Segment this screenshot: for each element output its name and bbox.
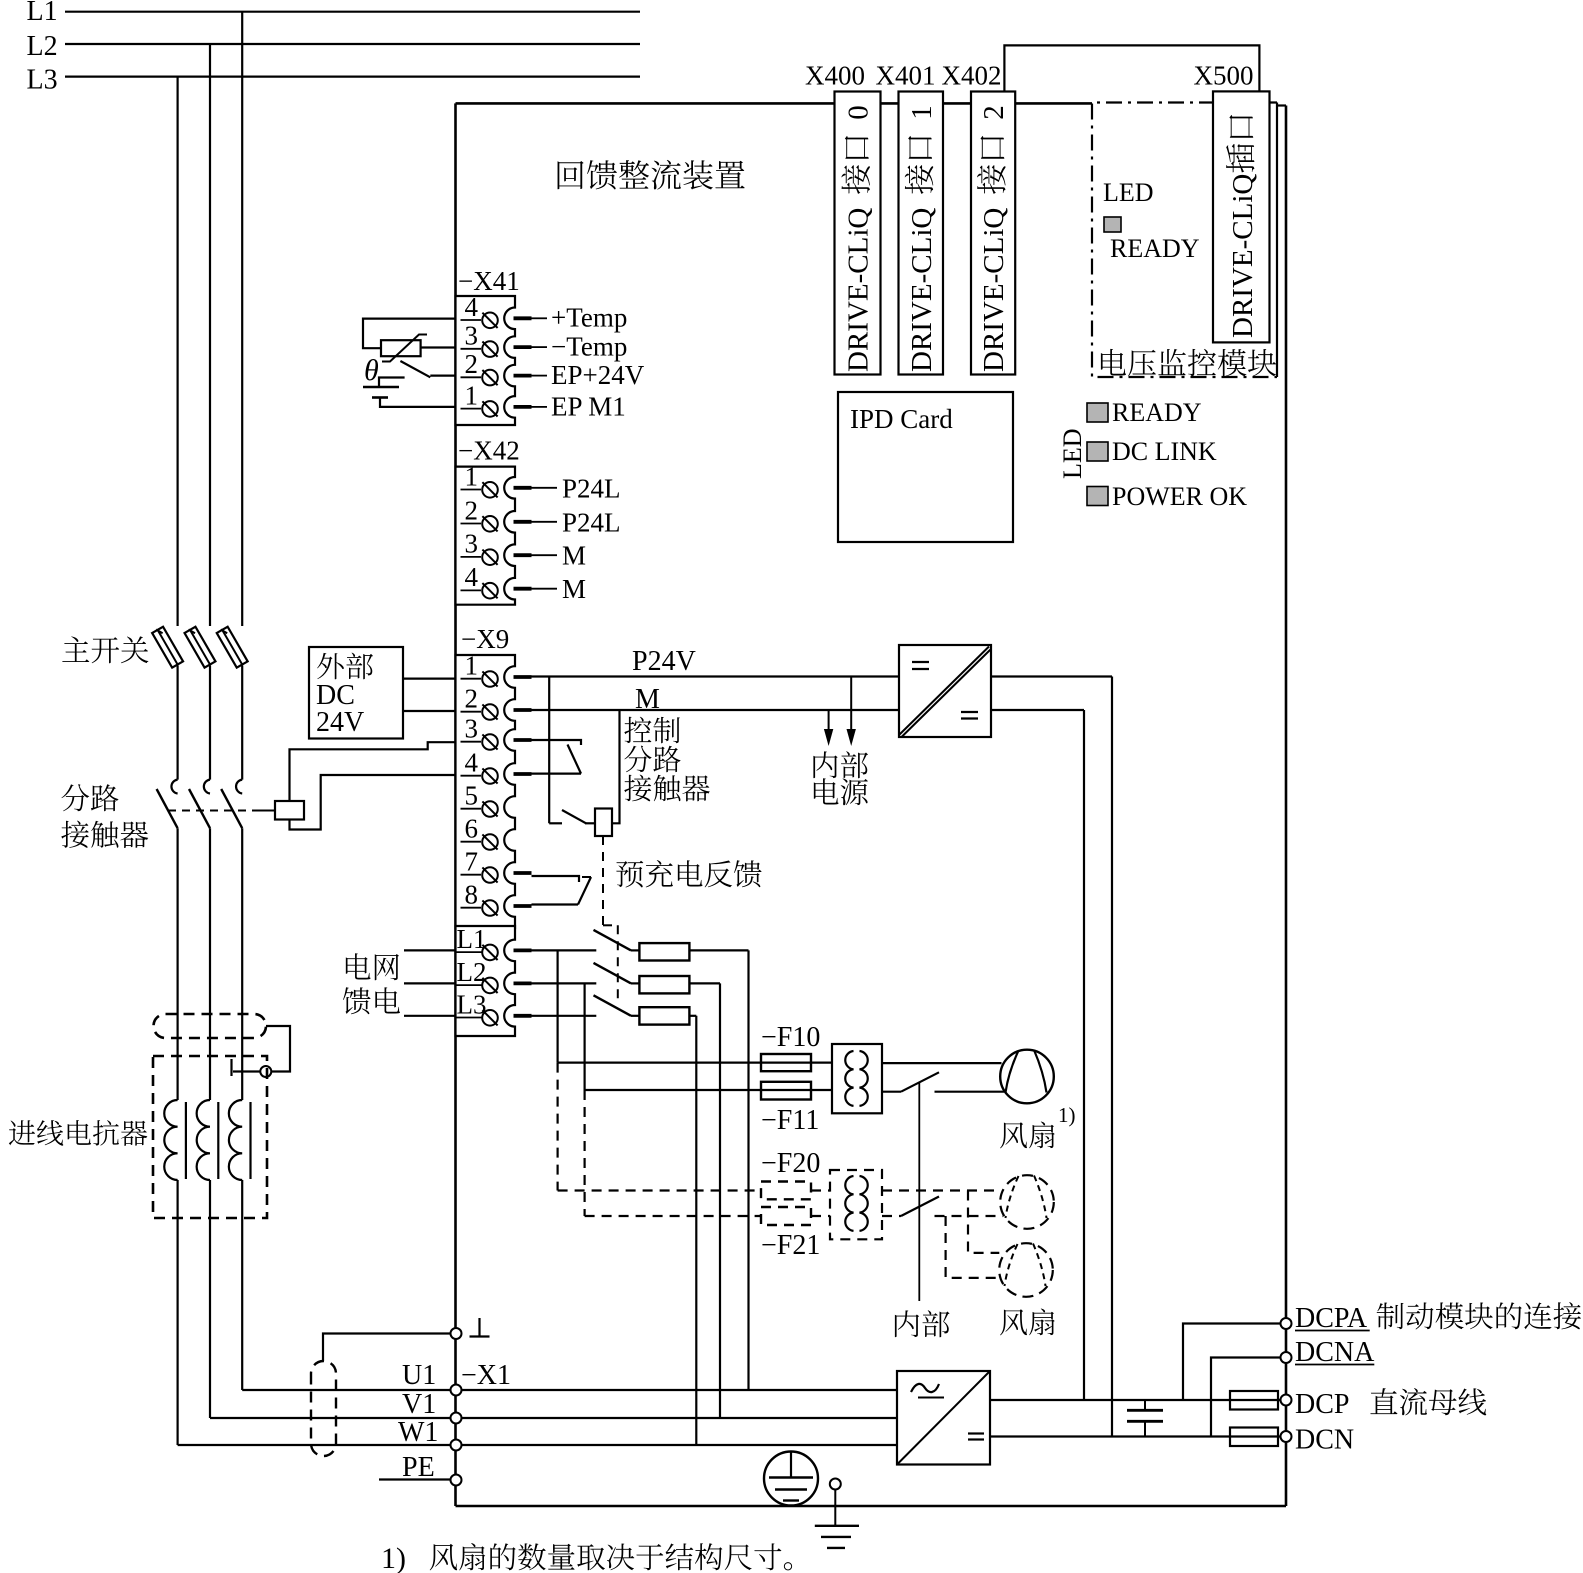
svg-text:1: 1	[465, 651, 479, 681]
wire fan 2 switch to fan 2 (dashed)	[935, 1215, 1004, 1217]
X9-3/4 contact blade	[568, 745, 582, 774]
svg-text:DCP: DCP	[1295, 1389, 1349, 1420]
wire T1 to fan 1 top	[882, 1062, 1002, 1064]
precharge feedback label 预充电反馈	[616, 861, 643, 888]
wire L3 drop mid	[177, 666, 179, 780]
wire P24V rail	[532, 675, 900, 677]
wire M rail drop to DCP	[1083, 710, 1085, 1400]
wire optional fan group feed 2 (dashed)	[583, 1090, 585, 1216]
wire U1 external	[242, 1389, 450, 1391]
svg-text:POWER OK: POWER OK	[1112, 482, 1247, 511]
bypass contact L2 lead	[532, 982, 597, 984]
svg-text:0: 0	[843, 105, 875, 119]
svg-text:EP M1: EP M1	[551, 392, 626, 422]
svg-text:6: 6	[465, 814, 479, 844]
wire L2 drop mid	[209, 666, 211, 780]
internal supply arrow 1	[828, 710, 830, 732]
terminal block X41	[456, 296, 516, 425]
svg-text:DRIVE-CLiQ: DRIVE-CLiQ	[843, 208, 875, 372]
line reactor winding L2	[197, 1100, 210, 1180]
precharge resistor L3	[639, 1007, 689, 1024]
svg-text:3: 3	[465, 714, 479, 744]
svg-text:2: 2	[465, 495, 479, 525]
wire L2 to fan fuse F11	[583, 983, 585, 1090]
svg-text:W1: W1	[398, 1417, 438, 1448]
terminal W1	[451, 1440, 462, 1451]
control contactor coil K1	[595, 809, 612, 837]
coil linkage to line contacts (dashed)	[602, 836, 604, 925]
protective earth circle symbol	[764, 1452, 818, 1506]
line reactor label 进线电抗器	[9, 1120, 35, 1145]
svg-text:7: 7	[465, 847, 479, 877]
temp switch left contact	[379, 378, 405, 388]
wire V1 internal	[462, 1417, 898, 1419]
X401 rotated label	[905, 105, 938, 372]
svg-text:−F20: −F20	[761, 1148, 820, 1179]
svg-text:−Temp: −Temp	[551, 332, 627, 362]
line reactor core L3	[185, 1102, 187, 1179]
external DC 24V box	[309, 647, 403, 739]
svg-text:L3: L3	[27, 65, 58, 96]
svg-text:L1: L1	[27, 0, 58, 27]
earth terminal circle	[830, 1479, 841, 1490]
svg-text:2: 2	[465, 684, 479, 714]
line reactor winding L1	[229, 1100, 242, 1180]
fuse F10	[761, 1054, 811, 1071]
DC/DC input = mark	[912, 661, 929, 663]
terminal U1	[451, 1385, 462, 1396]
wire X9-7 contact	[532, 876, 580, 882]
wire T1 to fan switch	[882, 1091, 901, 1093]
svg-text:EP+24V: EP+24V	[551, 360, 645, 390]
line contactor K1 pole 2 fixed contact	[204, 780, 210, 794]
wire grid feed L2	[404, 982, 456, 984]
precharge resistor L3 lead	[631, 1015, 639, 1017]
svg-text:DCNA: DCNA	[1295, 1337, 1375, 1368]
svg-text:1: 1	[465, 461, 479, 491]
wire DC24V to X9-1	[403, 677, 456, 679]
X400 DRIVE-CLiQ port box	[835, 92, 881, 375]
svg-text:LED: LED	[1058, 428, 1087, 479]
wire X9-3 contact	[532, 740, 582, 745]
cable shield sleeve (top, dashed stadium)	[154, 1014, 267, 1038]
fuse F20 (dashed)	[761, 1182, 811, 1200]
bypass contact L3 lead	[532, 1015, 597, 1017]
svg-text:DRIVE-CLiQ: DRIVE-CLiQ	[978, 208, 1010, 372]
line contactor K1 pole 3 blade	[221, 789, 242, 828]
internal power supply DC/DC converter	[899, 645, 991, 737]
LED square READY	[1087, 403, 1108, 422]
IPD Card box	[838, 392, 1013, 542]
wire L2 drop upper	[209, 44, 211, 626]
wire L2 drop lower	[209, 828, 211, 1100]
svg-text:24V: 24V	[316, 707, 364, 738]
svg-text:READY: READY	[1110, 234, 1200, 263]
wire V1 external	[210, 1417, 451, 1419]
DC/DC output = mark	[961, 711, 978, 713]
svg-text:−F10: −F10	[761, 1022, 820, 1053]
internal supply label 内部电源	[813, 751, 837, 778]
terminal block X42	[456, 467, 516, 605]
voltage monitoring module 电压监控模块 (dash-dot box)	[1092, 103, 1277, 378]
line reactor core L1	[249, 1102, 251, 1179]
wire DCP bus	[991, 1399, 1281, 1401]
thermistor strike (theta symbol mark)	[382, 335, 427, 362]
bypass contact L3 blade	[594, 995, 632, 1016]
fan 2 motor (dashed)	[1000, 1175, 1054, 1229]
svg-text:−X1: −X1	[461, 1360, 511, 1391]
terminal PE	[451, 1475, 462, 1486]
wire DCPA tap	[1183, 1324, 1281, 1401]
main switch Q1 pole 2	[185, 627, 216, 668]
wire U1 internal	[462, 1389, 898, 1391]
DC link capacitor	[1144, 1400, 1146, 1410]
earth terminal stem	[834, 1490, 836, 1526]
svg-text:3: 3	[465, 529, 479, 559]
svg-text:M: M	[562, 574, 586, 604]
temp switch blade	[400, 361, 430, 377]
svg-text:5: 5	[465, 781, 479, 811]
wire DC24V to X9-2	[403, 710, 456, 712]
wire coil top to X9-3	[290, 742, 456, 801]
wire L3 drop upper	[177, 77, 179, 626]
svg-text:DCPA: DCPA	[1295, 1303, 1368, 1334]
contactor control contact right lead	[585, 822, 595, 824]
X500 DRIVE-CLiQ socket box	[1213, 91, 1270, 342]
contactor control contact left lead	[549, 822, 562, 824]
mains terminal block L1 L2 L3	[456, 926, 516, 1036]
shield terminal circle	[451, 1328, 462, 1339]
wire resistor L3 out	[689, 1015, 696, 1017]
wire P24V rail drop to DCN	[1111, 677, 1113, 1437]
wire X9-8 contact	[532, 903, 579, 905]
VSM module label 电压监控模块	[1101, 349, 1126, 376]
svg-text:V1: V1	[402, 1389, 436, 1420]
svg-text:DC LINK: DC LINK	[1112, 437, 1217, 466]
shield terminal wire	[323, 1334, 451, 1362]
X401 DRIVE-CLiQ port box	[899, 92, 944, 375]
line reactor dashed enclosure	[153, 1056, 267, 1218]
main switch label 主开关	[62, 636, 89, 662]
wire W1 external	[178, 1444, 451, 1446]
svg-text:3: 3	[465, 321, 479, 351]
X500 connector outline	[1004, 45, 1259, 103]
precharge resistor L1 lead	[631, 949, 639, 951]
wire L2 drop bottom	[209, 1180, 211, 1418]
wire L1 feeder	[65, 11, 640, 13]
main unit title 回馈整流装置	[558, 161, 584, 189]
bypass contact L1 lead	[532, 949, 597, 951]
wire L1 drop bottom	[241, 1180, 243, 1390]
svg-text:1): 1)	[1058, 1103, 1076, 1127]
svg-text:P24L: P24L	[562, 507, 621, 537]
wire PE stub	[379, 1478, 451, 1480]
wire W1 internal	[462, 1444, 898, 1446]
wire L3 to rectifier input	[695, 1016, 697, 1445]
fan 2/3 label 风扇	[1000, 1309, 1027, 1335]
wire DCNA tap	[1211, 1358, 1281, 1437]
wire to fuse F11	[585, 1089, 761, 1091]
wire resistor L1 out	[689, 949, 748, 951]
svg-text:DCN: DCN	[1295, 1425, 1354, 1456]
line contactor label 分路接触器	[61, 784, 89, 811]
wire X41-2 temp switch	[430, 375, 455, 377]
internal fan control linkage	[918, 1082, 920, 1301]
fan switch blade	[901, 1072, 939, 1091]
wire X9-4 contact	[532, 772, 582, 774]
svg-text:PE: PE	[402, 1452, 435, 1483]
precharge resistor L2 lead	[631, 982, 639, 984]
svg-text:2: 2	[465, 349, 479, 379]
wire T2 to fan 2 switch (dashed)	[882, 1215, 901, 1217]
svg-text:4: 4	[465, 292, 479, 322]
svg-text:−X9: −X9	[461, 624, 509, 654]
wire L2 feeder	[65, 43, 640, 45]
terminal V1	[451, 1413, 462, 1424]
bypass contact L2 blade	[594, 963, 632, 984]
svg-text:2: 2	[978, 105, 1010, 119]
fan 1 label 风扇 1)	[1000, 1122, 1027, 1148]
contactor K1 linkage	[168, 810, 253, 812]
svg-text:1: 1	[465, 380, 479, 410]
precharge resistor L2	[639, 976, 689, 993]
fan 1 motor	[1000, 1050, 1054, 1104]
fan transformer T1 box	[832, 1044, 882, 1113]
rectifier DC mark	[968, 1432, 984, 1434]
wire to fuse F20 (dashed)	[558, 1189, 761, 1191]
wire X9-1 branch down	[548, 677, 550, 824]
svg-text:X500: X500	[1194, 61, 1254, 91]
thermistor body	[381, 340, 421, 356]
main rectifier AC/DC converter	[897, 1371, 990, 1465]
fan 2 switch blade	[901, 1197, 939, 1217]
svg-text:X402: X402	[942, 61, 1002, 91]
terminal DCN	[1281, 1431, 1292, 1442]
control contactor label 控制分路接触器	[624, 717, 651, 743]
wire T2 to fan 2 top (dashed)	[882, 1189, 1001, 1191]
stacked module offset corner	[1277, 104, 1286, 106]
shield bond bar	[230, 1059, 232, 1076]
wire L1 drop upper	[241, 12, 243, 626]
contactor K1 coil	[275, 801, 304, 820]
wire coil bottom to X9-4	[290, 775, 456, 830]
wire L1 to rectifier input	[747, 950, 749, 1390]
terminal DCNA	[1281, 1352, 1292, 1363]
wire X41-4 to thermistor	[363, 319, 456, 349]
fuse F11	[761, 1082, 811, 1100]
fan 3 motor (dashed)	[999, 1243, 1053, 1297]
terminal DCPA	[1281, 1318, 1292, 1329]
shield terminal symbol	[478, 1318, 480, 1337]
wire L1 drop mid	[241, 666, 243, 780]
X500 DRIVE-CLiQ socket rotated label	[1226, 115, 1259, 338]
wire resistor L2 out	[689, 982, 720, 984]
svg-text:−F11: −F11	[761, 1105, 819, 1136]
wire fan switch to fan 1	[935, 1091, 1005, 1093]
wire cell to X41-1	[380, 398, 456, 407]
fuse F21 (dashed)	[761, 1207, 811, 1225]
svg-text:P24V: P24V	[632, 646, 696, 677]
precharge resistor L1	[639, 943, 689, 960]
svg-text:READY: READY	[1112, 398, 1202, 427]
svg-text:IPD Card: IPD Card	[850, 404, 953, 434]
fan transformer T2 windings	[845, 1176, 853, 1231]
shield bonding terminal circle	[260, 1066, 271, 1077]
wire L3 drop bottom	[177, 1180, 179, 1445]
svg-text:P24L: P24L	[562, 473, 621, 503]
line contactor K1 pole 2 blade	[189, 789, 210, 828]
rectifier AC mark	[911, 1384, 939, 1392]
wire L3 feeder	[65, 75, 640, 77]
svg-text:1: 1	[906, 105, 938, 119]
bypass contact L1 blade	[594, 930, 632, 951]
internal label 内部	[895, 1310, 919, 1337]
grid feed label 电网馈电	[346, 953, 371, 979]
X402 rotated label	[977, 105, 1010, 372]
wire X41-3 to thermistor	[421, 346, 456, 348]
svg-text:U1: U1	[402, 1360, 436, 1391]
wire to fuse F21 (dashed)	[585, 1215, 761, 1217]
internal supply arrow 2	[850, 677, 852, 733]
line contactor K1 pole 1 blade	[157, 789, 178, 828]
wire shield tap	[266, 1026, 290, 1072]
fan 3 branch top (dashed)	[968, 1191, 999, 1253]
line contactor K1 pole 1 fixed contact	[171, 780, 177, 794]
terminal block X9	[456, 655, 516, 928]
fuse DCP	[1230, 1391, 1278, 1410]
wire L2 to rectifier input	[719, 983, 721, 1418]
svg-text:4: 4	[465, 748, 479, 778]
main unit enclosure 回馈整流装置	[456, 102, 1093, 105]
wire to fuse F10	[558, 1061, 761, 1063]
wire M rail	[532, 709, 900, 711]
wire grid feed L3	[404, 1015, 456, 1017]
fan 3 branch bottom (dashed)	[946, 1216, 1000, 1278]
main switch Q1 pole 1	[152, 627, 183, 668]
line reactor core L2	[217, 1102, 219, 1179]
LED square POWER OK	[1087, 487, 1108, 506]
svg-text:−F21: −F21	[761, 1230, 820, 1261]
svg-text:X401: X401	[876, 61, 936, 91]
svg-text:X400: X400	[805, 61, 865, 91]
svg-text:θ: θ	[364, 354, 379, 387]
main switch Q1 pole 3	[217, 627, 248, 668]
svg-text:+Temp: +Temp	[551, 303, 627, 333]
svg-text:L2: L2	[27, 31, 58, 62]
svg-text:1): 1)	[381, 1542, 406, 1573]
fuse DCN	[1230, 1428, 1278, 1447]
line reactor winding L3	[164, 1100, 177, 1180]
wire L1 drop lower	[241, 828, 243, 1100]
fan transformer T2 box (dashed)	[830, 1170, 882, 1239]
terminal DCP	[1281, 1395, 1292, 1406]
svg-text:4: 4	[465, 562, 479, 592]
wire coil to M rail	[612, 710, 620, 823]
wire grid feed L1	[404, 949, 456, 951]
line contactor K1 pole 3 fixed contact	[236, 780, 242, 794]
wire L1 to fan fuse F10	[556, 950, 558, 1062]
cell long bar	[363, 386, 399, 389]
wire optional fan group feed 1 (dashed)	[556, 1063, 558, 1191]
earth symbol	[815, 1525, 859, 1527]
wire DCN bus	[991, 1435, 1281, 1437]
wire L3 drop lower	[177, 828, 179, 1100]
svg-text:M: M	[562, 541, 586, 571]
cable shield sleeve (bottom, dashed capsule)	[311, 1361, 336, 1456]
contactor control contact blade	[562, 810, 586, 823]
svg-text:DRIVE-CLiQ: DRIVE-CLiQ	[906, 208, 938, 372]
X402 DRIVE-CLiQ port box	[971, 92, 1015, 375]
precharge feedback contact blade	[578, 877, 591, 905]
svg-text:8: 8	[465, 880, 479, 910]
X400 rotated label	[841, 105, 874, 372]
LED rotated label	[1058, 428, 1087, 479]
external DC 24V labels	[317, 653, 344, 679]
svg-text:LED: LED	[1103, 178, 1154, 207]
VSM READY LED square	[1104, 217, 1121, 232]
LED square DC LINK	[1087, 442, 1108, 461]
wire shield bond to reactor	[233, 1070, 260, 1072]
cell short bar	[372, 396, 388, 399]
svg-text:DRIVE-CLiQ: DRIVE-CLiQ	[1227, 174, 1259, 338]
fan transformer T1 windings	[845, 1051, 853, 1106]
